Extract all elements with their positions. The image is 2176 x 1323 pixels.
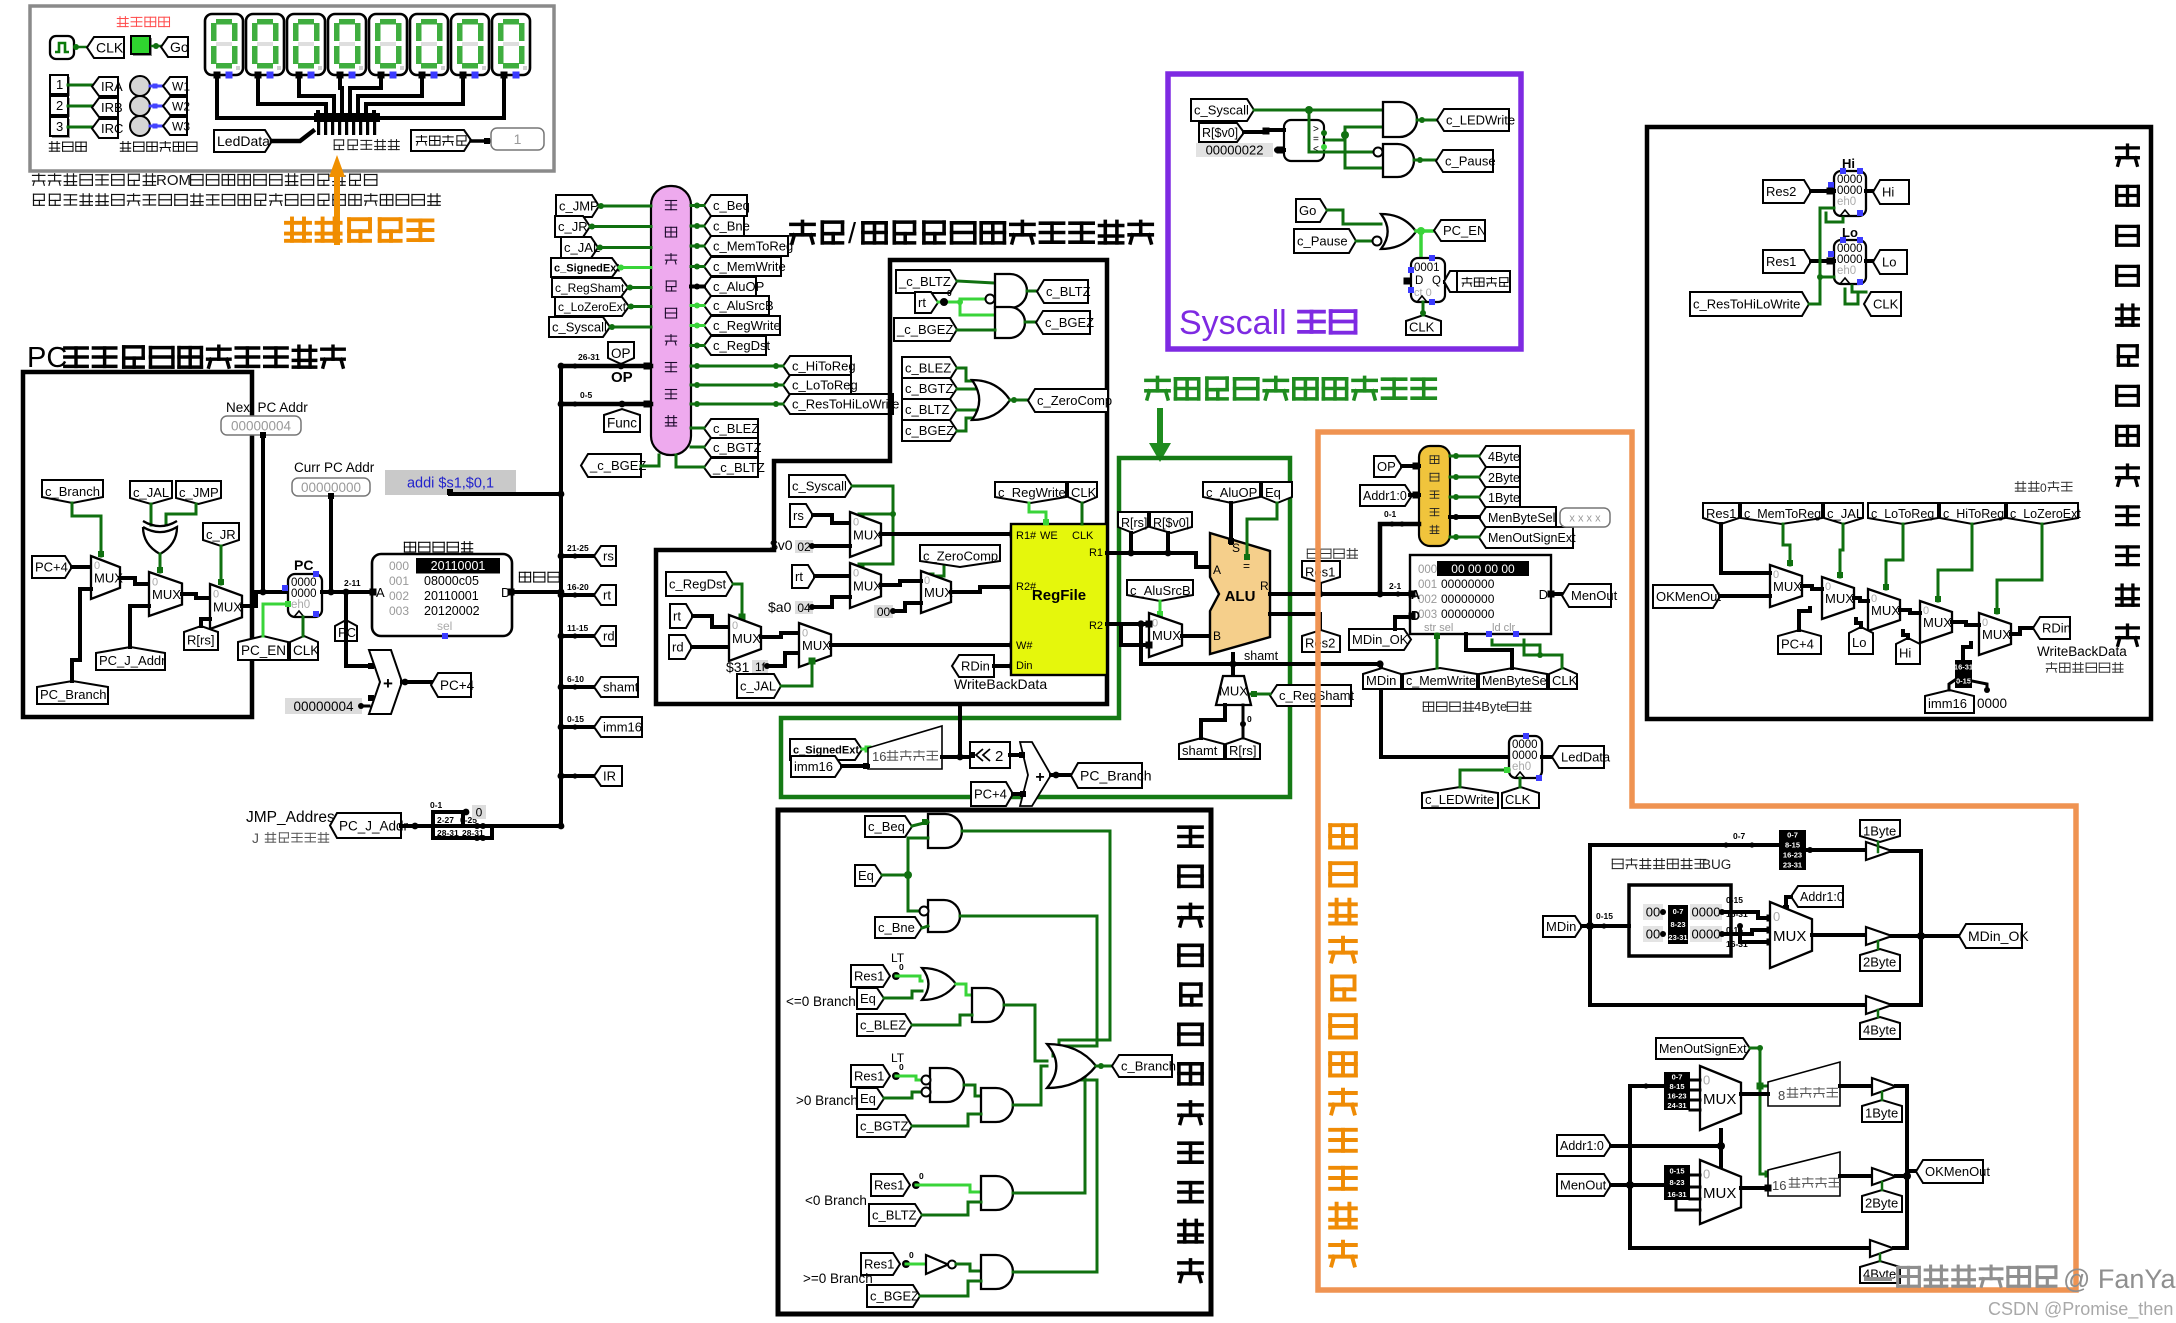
- wire MUX3 out to PC reg: [242, 592, 288, 606]
- svg-text:WriteBackData: WriteBackData: [2037, 644, 2127, 659]
- instr memory title 指令存储器: [404, 542, 472, 552]
- flag Addr1:0 (w): [1791, 886, 1843, 907]
- svg-text:24-31: 24-31: [1667, 1101, 1686, 1110]
- svg-text:LedData: LedData: [217, 133, 270, 149]
- flag CLK (regfile): [1068, 482, 1097, 503]
- wire bgtz-and to OR: [1013, 1066, 1047, 1105]
- svg-text:0-15: 0-15: [1669, 1166, 1684, 1175]
- svg-text:MUX: MUX: [1703, 1185, 1736, 1202]
- flag c_Syscall (regsel): [789, 475, 852, 497]
- svg-text:c_Syscall: c_Syscall: [1194, 103, 1249, 118]
- svg-text:16: 16: [1772, 1178, 1786, 1193]
- wire PC_J_Addr to MUX2: [130, 606, 149, 647]
- seven-segment display x8 showing 00000000: [205, 14, 243, 75]
- row >=0: and gate: [956, 1264, 981, 1271]
- svg-text:Res1: Res1: [854, 969, 884, 984]
- splitter top (write): [1779, 830, 1806, 870]
- big or gate c_Branch: [1047, 1044, 1096, 1088]
- svg-text:MenByteSel: MenByteSel: [1482, 674, 1549, 688]
- svg-text:c_Bne: c_Bne: [878, 920, 915, 935]
- flag c_Syscall: [549, 317, 610, 337]
- svg-text:MUX: MUX: [1871, 603, 1900, 618]
- flag c_RegWrite (top): [995, 482, 1066, 503]
- flag c_SignedExt (ext): [790, 739, 862, 760]
- row <=0: flag Res1: [851, 965, 890, 987]
- wire PC_Branch to MUX1: [72, 589, 91, 681]
- flag c_MemToReg (wb row): [1741, 503, 1822, 524]
- svg-text:MenOutSignExt: MenOutSignExt: [1488, 531, 1576, 545]
- svg-text:R2: R2: [1089, 620, 1103, 632]
- wire c_BLTZ to and: [922, 1202, 981, 1215]
- flag Res2 out: [1270, 614, 1320, 631]
- svg-text:c_SignedExt: c_SignedExt: [793, 745, 859, 757]
- row <0: and gate: [916, 1185, 981, 1192]
- wire c_BGTZ to and: [912, 1114, 981, 1126]
- flag PC+4 out: [431, 673, 471, 697]
- svg-text:0-1: 0-1: [430, 800, 443, 810]
- wire controller to c_RegDst: [691, 344, 704, 347]
- RAM contents: [1437, 561, 1529, 576]
- wire memctl to 2Byte: [1450, 476, 1479, 479]
- flag c_BLEZ: [704, 419, 758, 438]
- counter register D Q: [1411, 258, 1445, 302]
- wire LedData to bus: [272, 131, 313, 141]
- svg-text:WriteBackData: WriteBackData: [954, 676, 1047, 692]
- svg-text:c_BGTZ: c_BGTZ: [860, 1119, 908, 1134]
- svg-text:LT: LT: [891, 1051, 905, 1065]
- and gate BLTZ: [957, 281, 995, 283]
- flag PC_Branch out: [1051, 773, 1071, 777]
- flag OKMenOut out: [1916, 1160, 1983, 1183]
- flag c_LoZeroExt: [555, 297, 629, 316]
- row >=0: flag Res1: [861, 1253, 900, 1275]
- clock component: [50, 36, 74, 59]
- svg-text:PC+4: PC+4: [1781, 637, 1814, 652]
- flag c_MemWrite (ram): [1403, 668, 1477, 689]
- buffer 1Byte (r): [1872, 1078, 1896, 1095]
- svg-text:_c_BGEZ: _c_BGEZ: [896, 322, 953, 337]
- byte extract labels: [1643, 904, 1663, 920]
- flag CLK (syscall): [1406, 315, 1441, 335]
- flag 4Byte (w): [1860, 1017, 1900, 1039]
- wire AluOP to ALU: [1229, 503, 1233, 543]
- wire splitter1 feed: [1630, 1084, 1664, 1088]
- svg-text:shamt: shamt: [1244, 649, 1279, 663]
- mux wb1: [1770, 565, 1802, 607]
- svg-text:Addr1:0: Addr1:0: [1800, 890, 1844, 904]
- instruction memory box: [372, 554, 512, 636]
- wire func bus: [561, 402, 651, 407]
- svg-text:PC: PC: [294, 557, 313, 573]
- svg-text:0-1: 0-1: [1384, 509, 1397, 519]
- flag Lo (wb): [1849, 627, 1873, 654]
- wire memctl to MenOutSignExt: [1450, 536, 1479, 539]
- flag MDin (w): [1543, 916, 1582, 937]
- svg-text:c_BLTZ: c_BLTZ: [872, 1208, 917, 1223]
- flag c_AluOP: [704, 277, 756, 296]
- svg-text:c_JAL: c_JAL: [1827, 506, 1863, 521]
- flag 总周期数: [411, 130, 471, 151]
- svg-text:2: 2: [56, 98, 63, 113]
- svg-text:Res1: Res1: [874, 1178, 904, 1193]
- svg-text:c_LEDWrite: c_LEDWrite: [1446, 113, 1515, 128]
- wires splitter2 to mux2: [1690, 1174, 1700, 1177]
- button 1 interrupt source: [52, 77, 70, 96]
- wire c_JAL to XOR: [150, 504, 153, 525]
- alu shape: [1210, 533, 1270, 654]
- svg-text:RDin: RDin: [961, 659, 990, 674]
- wires zerocomp: [957, 368, 978, 381]
- flag c_Beq: [865, 816, 912, 837]
- branch adder: [1020, 742, 1051, 806]
- and gate bne (bubble): [928, 900, 960, 932]
- wire to IRB: [68, 105, 94, 108]
- svg-text:ROM: ROM: [156, 172, 191, 189]
- flag PC_J_Addr source: [330, 813, 401, 838]
- svg-text:>0 Branch: >0 Branch: [796, 1093, 858, 1108]
- green arrow down: [1149, 408, 1171, 462]
- flag R[rs] (exec): [1118, 512, 1148, 533]
- watermark 掘金技术社区 @ FanYa: [1864, 1277, 1892, 1281]
- wire CurrPC down: [329, 496, 333, 592]
- wire c_JR to MUX3 select: [220, 546, 223, 584]
- svg-text:$a0: $a0: [768, 599, 792, 615]
- svg-text:IR: IR: [603, 769, 616, 784]
- svg-text:MUX: MUX: [213, 600, 242, 615]
- wire controller to c_MemToReg: [691, 245, 704, 248]
- flag 4Byte (memctl): [1479, 446, 1520, 467]
- svg-text:4Byte: 4Byte: [1488, 450, 1520, 464]
- svg-text:PC+4: PC+4: [35, 560, 68, 575]
- svg-text:c_SignedExt: c_SignedExt: [554, 263, 620, 275]
- wire ledwrite en: [1460, 770, 1509, 787]
- svg-text:0-7: 0-7: [1673, 907, 1684, 916]
- svg-text:OKMenOut: OKMenOut: [1656, 589, 1721, 604]
- svg-text:rt: rt: [673, 609, 681, 624]
- flag PC_J_Addr: [96, 647, 165, 670]
- wire NextPC down: [261, 436, 265, 592]
- svg-text:eh0: eh0: [1512, 761, 1531, 773]
- svg-text:Next PC Addr: Next PC Addr: [226, 400, 308, 415]
- svg-text:OP: OP: [611, 369, 633, 386]
- wire c_JR to controller: [590, 225, 651, 228]
- flag c_RegDst: [704, 336, 766, 355]
- wire Rrs to MUX3: [201, 619, 210, 626]
- flag c_HiToReg (wb row): [1940, 503, 2005, 524]
- wire MenOut bus: [1611, 1183, 1664, 1187]
- svg-text:rt: rt: [918, 295, 926, 310]
- svg-text:c_BLEZ: c_BLEZ: [860, 1018, 906, 1033]
- svg-text:2-11: 2-11: [344, 578, 361, 588]
- svg-text:R[$v0]: R[$v0]: [1153, 516, 1189, 530]
- mux MUX1: [91, 556, 120, 599]
- const 00000004 gray: [285, 698, 362, 714]
- svg-text:Q: Q: [1432, 275, 1441, 287]
- svg-text:00: 00: [1646, 905, 1660, 920]
- svg-text:003: 003: [389, 604, 409, 618]
- wire const to adder: [361, 705, 369, 708]
- flag c_BGTZ: [704, 438, 758, 457]
- mux wb3: [1868, 589, 1900, 631]
- flag c_JMP: [176, 481, 221, 504]
- wire 1byte en: [1877, 842, 1880, 852]
- svg-text:c_ZeroComp: c_ZeroComp: [1037, 393, 1112, 408]
- wire PC to adder: [346, 592, 369, 666]
- flag c_AluSrcB: [1127, 580, 1193, 601]
- wire CLK green: [302, 617, 305, 636]
- svg-text:CLK: CLK: [1071, 485, 1097, 500]
- svg-text:c_RegWrite: c_RegWrite: [998, 485, 1066, 500]
- label 指令字: [519, 572, 559, 582]
- svg-text:CSDN @Promise_then: CSDN @Promise_then: [1988, 1299, 2173, 1320]
- wire c_Syscall to mux selects: [852, 486, 893, 564]
- wire AluSrcB sel: [1159, 601, 1162, 615]
- big mux (write): [1770, 902, 1812, 968]
- wire c_Bne to gate: [922, 926, 928, 928]
- bus trunk vertical: [559, 366, 563, 826]
- wire memwrite to str: [1436, 634, 1439, 668]
- svg-text:c_Pause: c_Pause: [1297, 234, 1348, 249]
- svg-text:ALU: ALU: [1225, 588, 1256, 605]
- svg-text:PC_Branch: PC_Branch: [1080, 768, 1152, 784]
- svg-text:Res1: Res1: [864, 1257, 894, 1272]
- wire ext16 out: [1840, 1174, 1872, 1178]
- wire addr to mux (w): [1786, 897, 1791, 910]
- flag shamt src: [1179, 738, 1224, 759]
- wires into big mux (w): [1722, 912, 1770, 918]
- svg-text:Hi: Hi: [1882, 185, 1894, 200]
- svg-text:c_Beq: c_Beq: [713, 198, 750, 213]
- flag c_BLEZ (branch): [857, 1014, 912, 1036]
- wire splitter to trunk: [492, 824, 561, 828]
- svg-text:16-31: 16-31: [1667, 1190, 1686, 1199]
- svg-text:00000022: 00000022: [1206, 143, 1264, 158]
- svg-text:R[$v0]: R[$v0]: [1202, 126, 1238, 140]
- svg-text:c_BGTZ: c_BGTZ: [713, 440, 761, 455]
- svg-text:Hi: Hi: [1899, 646, 1911, 661]
- flag c_BGTZ (zerocomp in): [902, 378, 957, 399]
- wire D to bus trunk: [512, 590, 562, 594]
- svg-text:c_HiToReg: c_HiToReg: [792, 359, 856, 374]
- flag Hi out: [1866, 189, 1873, 193]
- memory orange L frame: [1318, 432, 2076, 1290]
- probe value 1: [491, 128, 544, 150]
- svg-text:MUX: MUX: [802, 638, 831, 653]
- svg-text:1Byte: 1Byte: [1488, 491, 1520, 505]
- flag rd (regdst): [669, 635, 692, 659]
- flag PC+4 input: [32, 556, 72, 578]
- svg-text:PC_EN: PC_EN: [1443, 223, 1486, 238]
- wire Eq net: [882, 874, 908, 877]
- wire c_SignedExt to controller: [619, 266, 651, 269]
- svg-text:1Byte: 1Byte: [1865, 1106, 1898, 1121]
- svg-text:04: 04: [797, 601, 811, 615]
- row >0: nand gate: [896, 1076, 925, 1080]
- flag MenByteSel (memctl): [1479, 507, 1556, 528]
- buffer 4Byte (w): [1866, 996, 1892, 1014]
- wire mux5 to RDin: [2011, 628, 2033, 634]
- svg-text:W#: W#: [1016, 640, 1033, 652]
- svg-text:Res1: Res1: [854, 1069, 884, 1084]
- svg-text:002: 002: [1418, 594, 1437, 606]
- svg-text:c_JAL: c_JAL: [564, 240, 600, 255]
- flag c_BGEZ (zerocomp in): [902, 420, 957, 441]
- flag OKMenOut (wb): [1653, 585, 1720, 608]
- svg-text:c_JAL: c_JAL: [133, 485, 169, 500]
- mux rs/$v0: [850, 512, 881, 557]
- flag LedData: [214, 130, 272, 152]
- svg-text:MUX: MUX: [853, 528, 882, 543]
- wire c_Syscall to and gates: [1254, 109, 1383, 112]
- svg-text:003: 003: [1418, 609, 1437, 621]
- svg-text:8: 8: [1778, 1088, 1785, 1103]
- svg-text:0: 0: [1247, 714, 1252, 724]
- extender 8输入扩展: [1768, 1062, 1840, 1106]
- svg-text:_c_BLTZ: _c_BLTZ: [898, 274, 951, 289]
- svg-text:0000: 0000: [1977, 696, 2007, 711]
- flag c_HiToReg: [783, 356, 851, 376]
- svg-text:c_ResToHiLoWrite: c_ResToHiLoWrite: [792, 397, 899, 412]
- svg-text:=: =: [1243, 559, 1250, 573]
- label 低位0扩展: [2015, 482, 2039, 492]
- wire muxW to W#: [831, 643, 1011, 647]
- flag IRA: [92, 77, 118, 96]
- probe 00000022: [1196, 143, 1273, 157]
- and gate BGEZ: [995, 307, 1025, 338]
- probe x x x x: [1560, 508, 1610, 527]
- flag c_RegShamt: [552, 278, 628, 297]
- wire LED to W2: [150, 105, 165, 108]
- svg-text:0-15: 0-15: [1596, 911, 1613, 921]
- flag MenOut (r): [1557, 1174, 1611, 1196]
- flag PC+4 (wb): [1778, 630, 1821, 654]
- flag 2Byte (memctl): [1479, 467, 1520, 488]
- flag RDin (wb): [2033, 617, 2070, 639]
- svg-text:2: 2: [995, 748, 1003, 765]
- svg-text:CLK: CLK: [1409, 320, 1435, 335]
- label 中断等待指示: [120, 142, 197, 152]
- svg-text:LedData: LedData: [1561, 750, 1611, 765]
- flag PC_Branch: [37, 681, 108, 704]
- svg-text:002: 002: [389, 589, 409, 603]
- LED W2: [130, 96, 150, 116]
- svg-text:_c_BGEZ: _c_BGEZ: [589, 458, 646, 473]
- flag c_Syscall (syscall): [1191, 99, 1254, 121]
- svg-text:sel: sel: [437, 619, 452, 633]
- wire controller to c_RegWrite: [691, 324, 704, 327]
- svg-text:R: R: [1260, 579, 1269, 593]
- row >0: and gate: [964, 1085, 981, 1096]
- svg-text:c_RegWrite: c_RegWrite: [713, 318, 781, 333]
- flag R[$v0] (syscall): [1199, 123, 1244, 142]
- flag c_LEDWrite (mem): [1422, 787, 1498, 808]
- svg-text:c_Bne: c_Bne: [713, 219, 750, 234]
- flag 1Byte (w): [1860, 820, 1900, 842]
- mux MUX2: [149, 572, 182, 616]
- buffer 2Byte (w): [1866, 927, 1892, 945]
- splitter imm16 wb: [1955, 660, 1972, 688]
- wire bytesel to sel: [1466, 634, 1512, 668]
- flag CLK pc: [290, 636, 318, 660]
- flag MenByteSel (ram): [1479, 668, 1547, 689]
- register Lo: [1834, 240, 1866, 284]
- wire clk led: [1519, 778, 1522, 787]
- svg-text:Res2: Res2: [1766, 184, 1796, 199]
- svg-text:0: 0: [919, 1171, 924, 1181]
- svg-text:MenOut: MenOut: [1571, 588, 1618, 603]
- svg-text:x x x x: x x x x: [1569, 512, 1601, 524]
- wire PC flag up: [345, 592, 348, 620]
- svg-text:001: 001: [389, 574, 409, 588]
- wire c_Syscall to controller: [610, 326, 651, 329]
- svg-text:MenByteSel: MenByteSel: [1488, 511, 1555, 525]
- wire controller to c_MemWrite: [691, 265, 704, 268]
- wire MUX1 out to MUX2: [120, 578, 149, 584]
- svg-text:00000000: 00000000: [1441, 577, 1495, 591]
- svg-text:8-23: 8-23: [1669, 1178, 1684, 1187]
- wire to IRA: [68, 84, 94, 87]
- flag rt (regdst): [670, 604, 693, 628]
- svg-text:23-31: 23-31: [1668, 933, 1687, 942]
- svg-text:28-31: 28-31: [437, 828, 459, 838]
- wire c_RegShamt to controller: [628, 286, 651, 289]
- svg-text:Func: Func: [607, 415, 637, 430]
- svg-text:Eq: Eq: [860, 1091, 876, 1106]
- flag rt src: [792, 565, 815, 588]
- button 3 interrupt source: [52, 119, 70, 138]
- svg-text:2-27: 2-27: [437, 815, 454, 825]
- wire 02 to mux: [813, 544, 850, 548]
- wires wb selects green: [1721, 524, 1770, 573]
- svg-text:MenOut: MenOut: [1560, 1178, 1607, 1193]
- svg-text:c_BLTZ: c_BLTZ: [905, 402, 950, 417]
- svg-text:c_BGEZ: c_BGEZ: [905, 423, 954, 438]
- svg-text:<0 Branch: <0 Branch: [805, 1193, 867, 1208]
- svg-text:0001: 0001: [1414, 262, 1440, 274]
- svg-text:PC_J_Addr: PC_J_Addr: [99, 653, 166, 668]
- wire Res1 to Lo: [1811, 259, 1834, 263]
- buffer 2Byte (r): [1872, 1168, 1896, 1185]
- big mux read1: [1700, 1066, 1741, 1130]
- svg-text:CLK: CLK: [1873, 297, 1899, 312]
- svg-text:c_Syscall: c_Syscall: [552, 320, 607, 335]
- svg-text:RegFile: RegFile: [1032, 587, 1086, 604]
- svg-text:R[rs]: R[rs]: [1229, 743, 1256, 758]
- svg-text:1Byte: 1Byte: [1863, 824, 1896, 839]
- flag W3: [163, 117, 187, 135]
- row <=0: or gate: [896, 976, 922, 981]
- svg-text:Din: Din: [1016, 660, 1033, 672]
- flag c_Pause in: [1294, 229, 1356, 253]
- flag Rrs src2: [1226, 738, 1260, 759]
- flag c_JMP: [556, 195, 599, 217]
- flag Lo out: [1866, 259, 1873, 263]
- wire RDin to Din: [994, 664, 1011, 668]
- row >0: flag Res1: [851, 1065, 890, 1087]
- svg-text:c_MemWrite: c_MemWrite: [713, 259, 786, 274]
- wire c_Branch to MUX1 select: [72, 503, 101, 556]
- wire muxB in2: [1146, 621, 1153, 628]
- svg-text:shamt: shamt: [1182, 743, 1218, 758]
- wire bltz-and to OR: [1013, 1070, 1085, 1193]
- label 本存储器4Byte地址: [1423, 702, 1473, 712]
- probe Curr PC Addr 00000000: [292, 478, 370, 496]
- wire controller to c_Beq: [691, 204, 704, 207]
- flag c_RegDst: [666, 572, 733, 596]
- svg-text:Go: Go: [170, 39, 189, 55]
- svg-text:16: 16: [872, 749, 886, 764]
- xor gate (c_JAL xor c_JMP): [143, 527, 177, 554]
